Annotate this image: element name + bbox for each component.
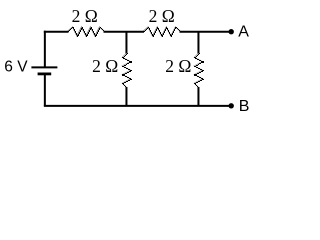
svg-text:2 Ω: 2 Ω [165,56,191,76]
wire: top rail left segment from corner to R1 [44,31,69,33]
resistor R2 2ohm horizontal zigzag [144,27,182,37]
wire: left vertical segment from battery bottom plate down to bottom rail [44,75,46,106]
wire: top rail between R1 and R2 (junction of R3 branch) [104,31,145,33]
svg-text:B: B [239,98,250,115]
resistor R1 2ohm horizontal zigzag [68,27,105,37]
resistor R3 2ohm vertical zigzag [122,53,132,88]
wire: top rail from R2 to terminal A [180,31,232,33]
terminal node B dot [229,103,234,108]
wire: left vertical from top-left corner down to battery top plate [44,31,46,67]
wire: branch 1 lower lead from R3 to bottom rail [125,87,127,106]
wire: branch 1 upper lead from top rail to R3 [125,32,127,54]
battery V1 6V: short negative plate [38,73,52,76]
wire: bottom rail from battery to terminal B [44,105,231,107]
svg-text:2 Ω: 2 Ω [72,6,98,26]
terminal node A dot [229,29,234,34]
resistor R4 2ohm vertical zigzag [194,53,204,88]
svg-text:A: A [238,24,249,41]
svg-text:6 V: 6 V [4,58,28,75]
svg-text:2 Ω: 2 Ω [149,6,175,26]
wire: branch 2 lower lead from R4 to bottom rail [197,87,199,106]
battery V1 6V: long positive plate [31,66,57,68]
wire: branch 2 upper lead from top rail to R4 [197,32,199,54]
svg-text:2 Ω: 2 Ω [92,56,118,76]
